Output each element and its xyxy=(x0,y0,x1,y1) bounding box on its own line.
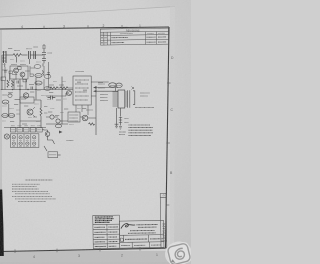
title block left section box xyxy=(93,215,120,248)
transistor Q9 xyxy=(8,93,12,97)
diode labels xyxy=(125,118,129,120)
frame bottom border xyxy=(0,248,166,251)
transistor Q5 xyxy=(67,91,72,96)
capacitor C1 xyxy=(29,51,31,59)
wire left riser xyxy=(48,62,50,88)
labels left of connector xyxy=(100,94,108,96)
speaker arrow 1 xyxy=(93,86,97,88)
drawing number side strip xyxy=(160,193,167,248)
output module box xyxy=(73,76,91,105)
paper top edge xyxy=(0,7,175,18)
tone stage box xyxy=(20,97,34,103)
wire xyxy=(42,130,54,151)
wire drops from top chain xyxy=(5,57,43,68)
transistor Q8 xyxy=(82,115,88,121)
arrow symbol xyxy=(59,131,63,134)
transformer T1 xyxy=(4,51,7,63)
label R1 value xyxy=(14,50,20,52)
column header text xyxy=(101,32,165,35)
bottom bus wire xyxy=(4,127,46,129)
diode CR3 xyxy=(119,122,122,126)
jack oval J2 xyxy=(2,114,8,118)
frame left border (faint, at cut edge) xyxy=(0,29,2,190)
rectifier circle CR1 xyxy=(45,132,50,137)
wires between box and bus xyxy=(14,78,36,90)
module label xyxy=(76,71,85,73)
revisions row 1 text xyxy=(101,36,166,39)
wire xyxy=(46,77,73,125)
cable bracket xyxy=(133,91,135,105)
driver box xyxy=(68,112,80,122)
title area rule xyxy=(120,234,164,237)
resistor R1 xyxy=(13,54,21,57)
cable label text xyxy=(140,92,150,94)
wire drops below module xyxy=(76,105,88,115)
scale row rule xyxy=(120,241,164,244)
ground xyxy=(119,127,122,129)
connector mate column xyxy=(128,90,130,108)
revisions row rule xyxy=(101,38,169,41)
junction dots xyxy=(12,89,37,90)
zone tick marks top xyxy=(43,26,45,29)
note text line right xyxy=(135,107,154,109)
tube label oval V5 xyxy=(44,87,51,91)
photo grain overlay xyxy=(0,0,191,264)
resistor R2 vertical xyxy=(7,80,9,87)
capacitor C6 xyxy=(31,87,33,90)
title block right section box xyxy=(119,220,164,248)
NOTES PLACEHOLDER xyxy=(12,180,56,201)
switch bank box labels xyxy=(11,129,41,131)
drawing number row xyxy=(148,235,150,242)
tube label oval V3 xyxy=(34,65,41,69)
wire xyxy=(31,54,44,56)
label cluster above box xyxy=(11,64,17,66)
tube label oval V2 xyxy=(35,81,42,85)
notes heading xyxy=(26,179,53,181)
connector J2 body xyxy=(118,90,125,108)
label R5 xyxy=(44,106,48,108)
fuse oval F1 xyxy=(56,124,62,128)
transistor Q2 xyxy=(20,72,25,77)
wire left edge xyxy=(1,55,3,90)
power switch box xyxy=(48,152,58,158)
plug ovals P1 J1 xyxy=(109,83,117,87)
approvals block text rows xyxy=(94,227,118,247)
connector top arrow xyxy=(132,87,135,90)
note line 4 xyxy=(12,190,48,192)
revisions column lines xyxy=(103,32,105,45)
last used table text xyxy=(129,125,154,135)
wire drops cluster xyxy=(5,66,44,90)
frame right border xyxy=(166,27,170,248)
node label S1 xyxy=(1,77,6,80)
TITLEBLOCK PLACEHOLDER xyxy=(93,193,167,248)
company name text xyxy=(136,225,158,228)
wire below connector xyxy=(117,108,121,126)
capacitor C5 xyxy=(17,81,19,84)
capacitor C3 stack xyxy=(42,44,46,63)
label R4 xyxy=(8,92,13,94)
capacitor C4 xyxy=(48,96,56,100)
tube heater grid frame xyxy=(10,134,39,148)
speaker arrow 2 xyxy=(93,90,97,92)
note line 1 xyxy=(12,183,40,185)
label TP1 xyxy=(17,113,21,115)
address text rows xyxy=(128,230,156,233)
note line 3 xyxy=(12,188,39,190)
REVISIONS TABLE PLACEHOLDER xyxy=(100,28,168,45)
module internal caps xyxy=(78,82,86,92)
wire xyxy=(20,90,36,105)
heater circle symbols row 1 xyxy=(12,136,36,139)
revisions column header rule xyxy=(100,34,168,37)
connector J2 pins right xyxy=(125,92,128,106)
frame top border xyxy=(0,27,169,29)
heater circle symbols row 2 xyxy=(12,142,36,145)
pilot lamp xyxy=(4,134,9,139)
size letter box xyxy=(123,235,125,242)
note line 2 xyxy=(12,186,37,188)
SCHEMATIC CONTENT PLACEHOLDER xyxy=(1,44,155,158)
transistor Q1 xyxy=(14,68,19,73)
capacitor C8 xyxy=(47,73,50,75)
resistor R7 xyxy=(60,87,68,89)
zone tick marks bottom xyxy=(14,249,16,253)
label misc2 xyxy=(2,60,81,125)
note line 5 xyxy=(15,193,50,195)
note line 7 xyxy=(15,198,56,200)
wire xyxy=(9,100,41,128)
scale row text xyxy=(121,244,161,247)
note line 8 xyxy=(18,200,46,202)
speaker labels xyxy=(98,83,105,85)
note line 6 xyxy=(12,195,53,197)
photo background xyxy=(0,0,191,264)
module internal text rows xyxy=(75,80,89,100)
wire right of module xyxy=(91,82,109,96)
connector J2 pins left xyxy=(113,92,119,106)
transistor Q3 xyxy=(23,93,28,98)
label Q8 value xyxy=(86,109,93,111)
diode CR4 xyxy=(115,124,119,128)
approvals stamp block xyxy=(95,217,114,223)
label 4.7K xyxy=(67,140,74,142)
wire xyxy=(6,54,13,56)
label cluster misc xyxy=(3,47,104,124)
jack oval J3 xyxy=(8,114,14,118)
resistor R8 xyxy=(89,123,95,125)
revisions header rule xyxy=(100,30,168,33)
heater symbol marks xyxy=(13,137,35,143)
small component bodies scattered xyxy=(18,67,22,70)
resistor R5 vertical xyxy=(40,108,42,116)
wire below switch xyxy=(58,154,61,156)
company logo swoosh xyxy=(121,223,135,228)
wire xyxy=(22,54,28,56)
wire to connector xyxy=(97,87,119,91)
transistor Q7 xyxy=(56,119,60,123)
switch bank boxes xyxy=(10,128,15,132)
revisions row 2 text xyxy=(101,41,166,44)
bus wire xyxy=(1,89,74,91)
wire xyxy=(46,86,96,135)
watermark logo bottom right xyxy=(162,239,194,264)
switch bank top labels xyxy=(11,125,41,127)
tube label oval V4 xyxy=(44,75,51,79)
capacitor C7 xyxy=(4,71,7,73)
grid column dividers xyxy=(17,134,31,148)
resistor R3 vertical xyxy=(12,80,14,87)
transistor Q4 xyxy=(27,109,33,115)
label C3 xyxy=(48,52,53,54)
diode CR2 xyxy=(119,117,122,122)
transistor Q6 xyxy=(50,115,54,119)
paper sheet xyxy=(0,7,175,263)
resistor R9 xyxy=(42,70,44,76)
ref designation text block xyxy=(119,132,126,135)
capacitor C2 xyxy=(34,51,36,59)
grid cell bottom marks xyxy=(12,140,36,146)
jack oval J1 xyxy=(2,100,9,104)
zone tick marks right xyxy=(167,82,171,84)
tube label oval V1 xyxy=(35,74,42,78)
revisions table outer box xyxy=(100,28,168,45)
approvals column rules xyxy=(93,223,119,225)
left dark photo strip xyxy=(0,190,4,257)
resistor R6 xyxy=(50,87,58,89)
amplifier stage box xyxy=(10,66,28,79)
